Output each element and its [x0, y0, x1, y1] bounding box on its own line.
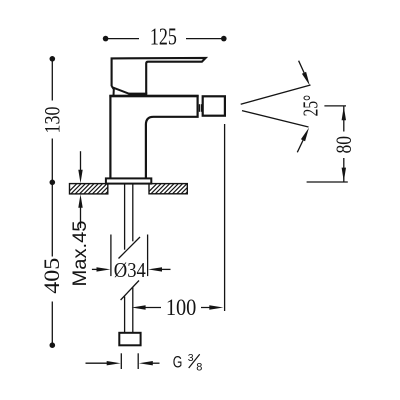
dimension 100 right extension line	[224, 124, 226, 311]
supply pipe left line upper segment	[124, 184, 126, 250]
dimension 80 lower extension line	[307, 181, 348, 183]
25 deg lower leader arrow	[297, 128, 309, 153]
25 deg upper leader arrow	[299, 61, 310, 86]
G3/8 connector block	[119, 333, 140, 346]
dimension O34 extension lines	[111, 235, 148, 277]
dimension 125 line	[103, 28, 227, 47]
spray cone upper line	[241, 85, 311, 104]
aerator connector neck	[199, 104, 201, 112]
svg-text:100: 100	[166, 295, 197, 321]
G3/8 right arrow	[139, 361, 160, 365]
svg-text:80: 80	[331, 136, 356, 154]
countertop right section	[146, 184, 196, 195]
svg-text:130: 130	[40, 107, 65, 134]
handle base bottom edge	[129, 93, 148, 95]
svg-text:25°: 25°	[299, 95, 323, 117]
aerator	[203, 96, 225, 115]
svg-text:125: 125	[150, 25, 177, 51]
dimension 80 vertical line with arrows	[335, 106, 353, 182]
pipe break slash lower	[121, 281, 139, 301]
G3/8 dimension ticks	[121, 353, 138, 369]
dimension O34 text	[113, 258, 148, 282]
svg-text:Ø34: Ø34	[114, 258, 146, 282]
pipe break slash upper	[119, 237, 141, 259]
handle left lower edge	[112, 86, 114, 96]
faucet lever handle	[112, 58, 206, 94]
dimension O34 left arrow	[92, 267, 111, 271]
G3/8 text	[173, 352, 203, 374]
faucet body outline	[110, 96, 197, 178]
supply pipe left line lower segment	[124, 297, 126, 334]
svg-text:405: 405	[39, 258, 64, 294]
Max.45 upper arrow	[78, 151, 82, 183]
dimension O34 right arrow	[148, 267, 170, 271]
countertop left section	[66, 184, 116, 195]
supply pipe right line lower segment	[132, 288, 134, 334]
mounting flange	[106, 178, 151, 183]
G3/8 left arrow	[86, 361, 121, 365]
dimension 100 line	[132, 298, 224, 317]
Max.45 lower arrow	[78, 194, 82, 228]
supply pipe right line upper segment	[132, 184, 134, 242]
left vertical dimension line (130 / 405)	[42, 56, 61, 348]
dimension 80 upper extension line	[324, 105, 346, 107]
handle front bevel	[112, 87, 129, 94]
spray cone lower line	[242, 111, 309, 127]
svg-text:Max.45: Max.45	[69, 220, 91, 286]
svg-text:8: 8	[196, 361, 202, 373]
svg-text:G: G	[173, 353, 183, 371]
body top edge (thick)	[109, 95, 198, 98]
